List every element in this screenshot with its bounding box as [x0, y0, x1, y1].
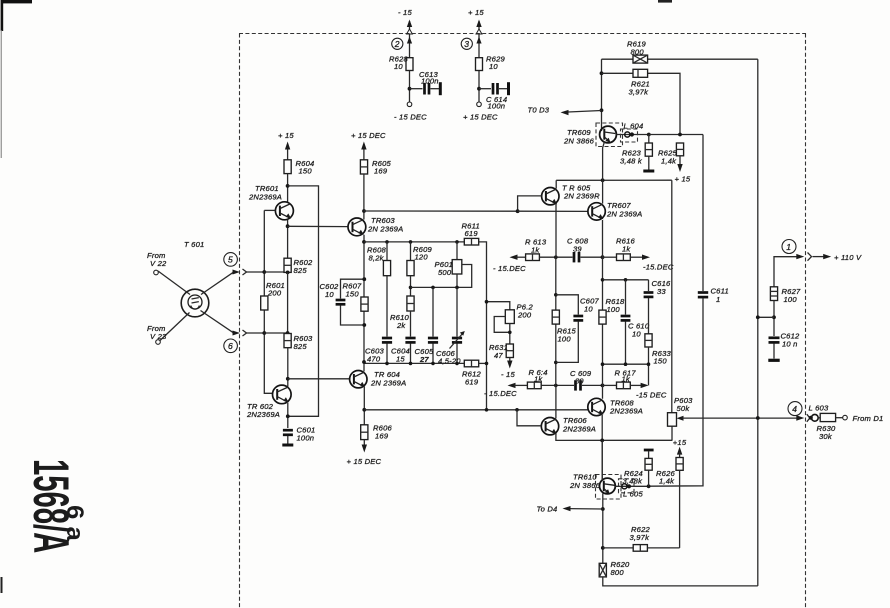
transistor TR606: [541, 418, 558, 435]
resistor R633: [645, 334, 652, 386]
svg-text:T0 D3: T0 D3: [528, 106, 550, 115]
junction C602 top: [362, 277, 366, 281]
capacitor C614: [479, 82, 509, 95]
svg-text:+ 15: + 15: [278, 131, 294, 140]
junction node6 on R601 column: [262, 331, 266, 335]
cascode node wire y180: [556, 179, 672, 181]
resistor R614 (horizontal): [527, 382, 541, 389]
TR605 emitter down: [555, 204, 557, 257]
svg-text:825: 825: [294, 342, 308, 351]
resistor R620 (with X): [599, 563, 606, 577]
junction C606 bottom: [455, 362, 459, 366]
chevron at border: [808, 253, 812, 261]
junction R622 tap: [601, 546, 605, 550]
resistor R609: [407, 242, 414, 296]
TR606 collector up to C609 wire: [555, 385, 557, 418]
triangle at border node3: [476, 29, 482, 34]
resistor R606: [361, 425, 368, 440]
To D4 arrow: [563, 506, 603, 511]
transistor TR608: [588, 398, 605, 415]
resistor R630 (horizontal): [820, 413, 835, 421]
junction TR606 bracket on bus: [515, 408, 519, 412]
wire node5 to R602 column: [264, 271, 287, 273]
capacitor C616: [644, 280, 654, 334]
junction R625 top: [678, 133, 682, 137]
capacitor C601: [282, 430, 293, 445]
junction base bus: [516, 209, 520, 213]
sheet title 6 a rotated: [61, 505, 88, 542]
wire node3 down: [478, 34, 480, 102]
junction R608 top: [385, 240, 389, 244]
junction R615 col bottom: [554, 384, 558, 388]
arrow up node2: [407, 20, 412, 31]
svg-text:2N2369A: 2N2369A: [248, 193, 282, 202]
capacitor C606 variable: [450, 287, 465, 363]
wire T601 to node 6: [201, 311, 235, 334]
resistor R610: [407, 296, 414, 337]
svg-text:+ 15: + 15: [675, 175, 691, 184]
wire V23 into T601: [160, 313, 190, 341]
capacitor C605: [428, 287, 438, 363]
junction TR604 collector: [362, 360, 366, 364]
junction To D4: [601, 507, 605, 511]
wire tap to feedback vertical: [758, 316, 774, 318]
inductor bead L603: [809, 414, 820, 421]
TO D3 branch: [561, 108, 604, 115]
transistor TR610 in dashed can: [596, 475, 622, 500]
svg-text:- 15.DEC: - 15.DEC: [493, 264, 526, 273]
arrow to +110V: [813, 254, 832, 259]
junction R602/node5: [286, 271, 290, 275]
R621 wire: [602, 73, 681, 134]
svg-text:1k: 1k: [622, 245, 631, 254]
svg-text:30k: 30k: [819, 432, 833, 441]
resistor R616 (horizontal): [603, 254, 651, 261]
registration corner mark top-left: [1, 0, 672, 31]
dashed enclosure border left: [239, 34, 241, 608]
capacitor C607 bracket: [556, 295, 583, 363]
svg-text:2k: 2k: [396, 321, 406, 330]
junction C607 bracket bottom: [554, 361, 558, 365]
svg-text:+ 110 V: + 110 V: [834, 253, 862, 262]
TR606 emitter down to bus: [556, 434, 673, 441]
svg-text:15: 15: [396, 355, 405, 364]
TR605 base bracket: [518, 196, 542, 211]
svg-text:10 n: 10 n: [782, 340, 798, 349]
TR606 base bracket: [517, 410, 541, 426]
junction bottom horizontal left: [601, 362, 605, 366]
capacitor C608: [574, 252, 603, 262]
wire R602 to R603: [287, 272, 289, 333]
junction C606 top: [455, 286, 459, 290]
svg-text:39: 39: [575, 377, 584, 386]
arrowhead up below border node2: [407, 37, 412, 44]
resistor R622 wire: [603, 545, 680, 552]
resistor R631: [506, 344, 513, 358]
svg-text:100: 100: [558, 335, 572, 344]
svg-text:150: 150: [654, 357, 668, 366]
svg-text:2N 3866: 2N 3866: [563, 137, 595, 146]
resistor R612 (horizontal): [464, 360, 478, 367]
P603 bottom to +15 bus corner: [671, 426, 673, 440]
wire V22 into T601: [158, 271, 190, 295]
capacitor C602 bracket: [336, 279, 365, 325]
junction node5 on R601 column: [262, 270, 266, 274]
svg-text:27: 27: [419, 355, 429, 364]
svg-text:1,4k: 1,4k: [661, 157, 677, 166]
emitter degeneration bus y363: [364, 362, 464, 364]
wire L604 node to C611 corner: [649, 134, 703, 136]
supply arrow down -15: [507, 358, 512, 369]
svg-text:To D4: To D4: [537, 505, 558, 514]
svg-text:+15: +15: [673, 438, 687, 447]
svg-text:619: 619: [465, 378, 479, 387]
junction C603 bottom: [385, 362, 389, 366]
junction C605 bottom: [431, 362, 435, 366]
svg-text:2: 2: [394, 39, 400, 49]
junction cascode node: [601, 178, 605, 182]
TR601 base wire from R601 column: [264, 209, 275, 211]
svg-text:10: 10: [325, 290, 334, 299]
node junction: [477, 87, 481, 91]
R615 column vertical: [555, 257, 557, 385]
wire R612 to corner: [479, 362, 487, 364]
junction TR602 emitter / bootstrap: [286, 414, 290, 418]
R614 feed arrow -15DEC: [508, 383, 528, 388]
svg-text:- 15: - 15: [398, 8, 412, 17]
svg-text:619: 619: [465, 229, 479, 238]
node 2 circle: [392, 38, 403, 49]
svg-text:500: 500: [438, 268, 452, 277]
resistor R605: [360, 160, 367, 174]
svg-text:5: 5: [228, 255, 233, 265]
R619 wire top: [602, 58, 758, 60]
svg-text:100: 100: [607, 305, 621, 314]
transistor TR609 in dashed can: [596, 123, 623, 147]
transistor TR604: [350, 371, 367, 388]
resistor R613 (horizontal): [526, 254, 540, 261]
svg-text:100n: 100n: [421, 77, 439, 86]
svg-text:+ 15 DEC: + 15 DEC: [463, 113, 498, 122]
wire node2 down: [409, 34, 411, 58]
junction C604 bottom: [409, 362, 413, 366]
svg-text:100: 100: [784, 295, 798, 304]
node 5 circle: [224, 253, 238, 267]
svg-text:200: 200: [267, 289, 282, 298]
transistor TR602: [273, 385, 292, 404]
transistor TR605: [542, 188, 559, 205]
wire node5 into board: [247, 271, 265, 273]
transformer T601: [181, 289, 209, 317]
junction TR608 emitter on 440 bus: [600, 439, 604, 443]
svg-text:150: 150: [299, 167, 313, 176]
resistor R621: [633, 69, 648, 77]
junction main vertical at C609 wire: [601, 384, 605, 388]
svg-text:47: 47: [494, 351, 503, 360]
svg-text:2N 2369A: 2N 2369A: [367, 225, 403, 234]
resistor R625: [676, 143, 683, 172]
supply arrow down +15DEC: [362, 440, 367, 453]
wire TR601 emitter to TR603 base: [288, 225, 348, 227]
svg-text:100n: 100n: [488, 102, 506, 111]
svg-text:2N2369A: 2N2369A: [609, 407, 643, 416]
svg-text:39: 39: [573, 245, 582, 254]
supply arrow up R605: [361, 142, 366, 160]
TR603 emitter wire down: [363, 235, 365, 371]
svg-text:800: 800: [631, 48, 645, 57]
node 6 circle: [224, 339, 238, 353]
svg-text:2N2369A: 2N2369A: [562, 425, 596, 434]
node 1 output +110V: [782, 240, 796, 254]
junction TR602 collector / TR604 base: [286, 377, 290, 381]
junction on feedback vertical: [756, 315, 760, 319]
TR605 collector up: [555, 180, 557, 188]
wire R628 to junction: [409, 71, 411, 103]
TR604 emitter down to bus: [363, 387, 365, 425]
chevron node4: [807, 414, 810, 422]
capacitor C609: [576, 380, 603, 390]
capacitor C603: [382, 338, 392, 363]
chevron node6 border: [243, 330, 247, 336]
capacitor C612: [768, 338, 779, 361]
svg-text:L 605: L 605: [623, 490, 643, 499]
terminal circle -15DEC: [407, 102, 412, 107]
svg-text:3: 3: [464, 39, 469, 49]
supply arrow up R604: [285, 142, 290, 160]
capacitor C613: [410, 82, 441, 95]
resistor R611 (horizontal): [464, 238, 478, 245]
svg-text:3,48 k: 3,48 k: [620, 157, 643, 166]
TR609 emitter to cascode node: [603, 142, 605, 181]
TR610 base from bus: [601, 440, 603, 480]
wire R605 down to TR603 collector: [363, 174, 365, 220]
junction P602 wiper: [508, 331, 512, 335]
svg-text:-15.DEC: -15.DEC: [643, 263, 674, 272]
potentiometer P603: [668, 413, 801, 427]
svg-text:33: 33: [657, 287, 666, 296]
terminal circle V23: [156, 340, 161, 345]
junction R624 bottom: [647, 484, 651, 488]
svg-text:T 601: T 601: [184, 240, 204, 249]
wire R627 corner to border: [774, 257, 801, 287]
junction R621 tap: [600, 71, 604, 75]
resistor R602: [284, 258, 291, 272]
wire R630 to terminal: [836, 417, 843, 419]
resistor R624 with top terminal bar: [644, 450, 654, 486]
inductor bead L605: [615, 484, 648, 489]
junction C602 bottom: [362, 323, 366, 327]
junction R612 right: [485, 362, 489, 366]
resistor R623: [643, 135, 654, 172]
resistor R607: [361, 297, 368, 311]
svg-text:- 15.DEC: - 15.DEC: [484, 389, 517, 398]
svg-text:825: 825: [294, 266, 308, 275]
node junction: [408, 87, 412, 91]
wire R613 to C608: [539, 256, 572, 258]
resistor R608: [383, 242, 390, 337]
chevron node5 border: [243, 269, 247, 275]
main vertical TR607 emitter to TR608 collector: [602, 220, 604, 399]
junction R612 branch on bus: [485, 408, 489, 412]
wire R604 to TR601 collector: [287, 174, 289, 203]
junction TR601 emitter: [286, 224, 290, 228]
junction R627/C612 tap: [772, 315, 776, 319]
wire R614 to C609: [541, 384, 574, 386]
junction C610 top: [624, 278, 628, 282]
svg-text:-15 DEC: -15 DEC: [636, 391, 667, 400]
svg-text:1k: 1k: [531, 246, 540, 255]
svg-text:L 604: L 604: [624, 122, 644, 131]
wire TR603 collector bus to TR605/TR607 bases: [364, 210, 518, 212]
dashed enclosure border right: [805, 34, 807, 608]
transistor TR607: [588, 203, 605, 220]
svg-text:10: 10: [489, 62, 498, 71]
junction C607 bracket top: [554, 293, 558, 297]
svg-text:3,97k: 3,97k: [630, 533, 651, 542]
junction R609/R610 with wiper bus: [409, 286, 413, 290]
junction TR604 emitter on long bus: [362, 408, 366, 412]
resistor R603: [284, 334, 291, 348]
resistor R615: [552, 310, 559, 324]
svg-text:470: 470: [367, 355, 381, 364]
resistor R618 on main vertical: [599, 310, 606, 324]
arrowhead node5: [233, 270, 241, 275]
junction R609 top: [409, 240, 413, 244]
right loop vertical (feedback): [757, 59, 759, 586]
junction TR603 emitter / collector bus of stage: [362, 240, 366, 244]
junction R633 bottom: [647, 362, 651, 366]
svg-text:800: 800: [611, 568, 625, 577]
cascode output down to P603: [671, 180, 673, 413]
svg-text:100n: 100n: [297, 434, 315, 443]
svg-text:From D1: From D1: [853, 414, 884, 423]
resistor R628: [406, 58, 413, 71]
resistor R627: [770, 287, 777, 336]
resistor R617 (horizontal): [603, 382, 649, 389]
svg-text:1: 1: [716, 295, 720, 304]
svg-text:1: 1: [786, 242, 791, 252]
wire R603 to TR602 collector: [287, 348, 289, 387]
sheet title 1568/A rotated: [23, 459, 79, 553]
transistor TR601: [275, 202, 293, 220]
svg-text:10: 10: [584, 305, 593, 314]
bottom return wire: [603, 577, 758, 586]
bottom horizontal of inner box: [603, 363, 649, 365]
svg-text:L 603: L 603: [809, 404, 829, 413]
dashed enclosure border top: [239, 33, 806, 35]
svg-text:2N 2369R: 2N 2369R: [563, 192, 600, 201]
svg-text:1k: 1k: [622, 375, 631, 384]
junction node4 wire / feedback vertical: [756, 416, 760, 420]
junction top horizontal: [601, 278, 605, 282]
svg-text:2N2369A: 2N2369A: [246, 410, 280, 419]
arrowhead up below border node3: [476, 37, 481, 44]
potentiometer P601: [411, 242, 472, 288]
svg-text:2N 2369A: 2N 2369A: [370, 379, 406, 388]
triangle at border node2: [407, 29, 413, 34]
bus wire TR603 emitter to R611: [364, 241, 464, 243]
svg-text:10: 10: [632, 330, 641, 339]
TR608 emitter down: [601, 415, 603, 480]
svg-text:169: 169: [375, 432, 389, 441]
TR607 collector up: [602, 180, 604, 203]
wire node6 into board: [247, 332, 265, 334]
svg-text:- 15 DEC: - 15 DEC: [394, 113, 427, 122]
R601 column vertical (base line down to TR602): [264, 210, 272, 393]
svg-text:3,97k: 3,97k: [629, 88, 650, 97]
junction TR603 collector / wire to TR605: [362, 209, 366, 213]
svg-text:50k: 50k: [677, 404, 691, 413]
svg-text:1,4k: 1,4k: [659, 476, 675, 485]
top horizontal to C616: [603, 279, 649, 281]
wire to P602: [487, 302, 510, 310]
TR601 emitter wire down: [287, 220, 289, 259]
svg-text:3,48k: 3,48k: [623, 476, 644, 485]
terminal circle V22: [154, 270, 159, 275]
potentiometer P602: [494, 310, 514, 344]
wire R611 to right corner down: [479, 242, 487, 410]
svg-text:V 22: V 22: [150, 259, 167, 268]
svg-text:200: 200: [517, 311, 532, 320]
node 3 circle: [461, 38, 472, 49]
svg-text:6: 6: [228, 341, 233, 351]
junction R623 top: [647, 133, 651, 137]
capacitor C610: [621, 280, 631, 364]
resistor R629: [476, 58, 483, 71]
svg-text:150: 150: [346, 290, 360, 299]
resistor R626 with +15 arrow: [676, 447, 683, 548]
svg-text:10: 10: [394, 62, 403, 71]
junction C610 bottom: [624, 362, 628, 366]
resistor R601: [261, 296, 268, 310]
scan edge line left: [0, 30, 2, 158]
junction TR601 collector / bootstrap: [286, 184, 290, 188]
wire TR602 collector junction to TR604 base: [288, 378, 350, 380]
C611 long vertical: [649, 135, 709, 487]
svg-text:6 a: 6 a: [61, 505, 88, 542]
svg-text:169: 169: [374, 167, 388, 176]
junction P602 feed: [485, 300, 489, 304]
TR610 emitter down: [602, 494, 604, 564]
svg-text:2N 2369A: 2N 2369A: [606, 210, 642, 219]
svg-text:+ 15: + 15: [468, 8, 484, 17]
junction main vertical top: [601, 255, 605, 259]
long base bus TR606/TR608: [364, 409, 588, 411]
wire T601 to node 5: [201, 272, 234, 295]
junction C605 top: [431, 286, 435, 290]
resistor R604: [284, 160, 291, 174]
resistor R619 (with X): [633, 55, 648, 63]
arrow up node3: [476, 20, 481, 31]
terminal circle +15DEC: [477, 102, 482, 107]
svg-text:- 15: - 15: [501, 370, 515, 379]
R613 feed arrow -15DEC: [510, 255, 526, 260]
TR602 emitter wire down: [287, 403, 289, 428]
inductor bead L604: [616, 132, 648, 137]
junction P601 top: [455, 240, 459, 244]
transistor TR603: [348, 218, 366, 236]
svg-text:2N 3866: 2N 3866: [569, 481, 601, 490]
terminal circle From D1: [843, 415, 848, 420]
svg-text:+ 15 DEC: + 15 DEC: [347, 457, 382, 466]
capacitor C604: [405, 338, 415, 363]
node 4 circle: [788, 402, 802, 416]
wire node6 to R603 column: [264, 332, 287, 334]
wire node R619 left down: [601, 59, 603, 131]
svg-text:4: 4: [792, 404, 797, 414]
svg-text:8,2k: 8,2k: [369, 254, 385, 263]
arrowhead node6: [233, 331, 241, 336]
